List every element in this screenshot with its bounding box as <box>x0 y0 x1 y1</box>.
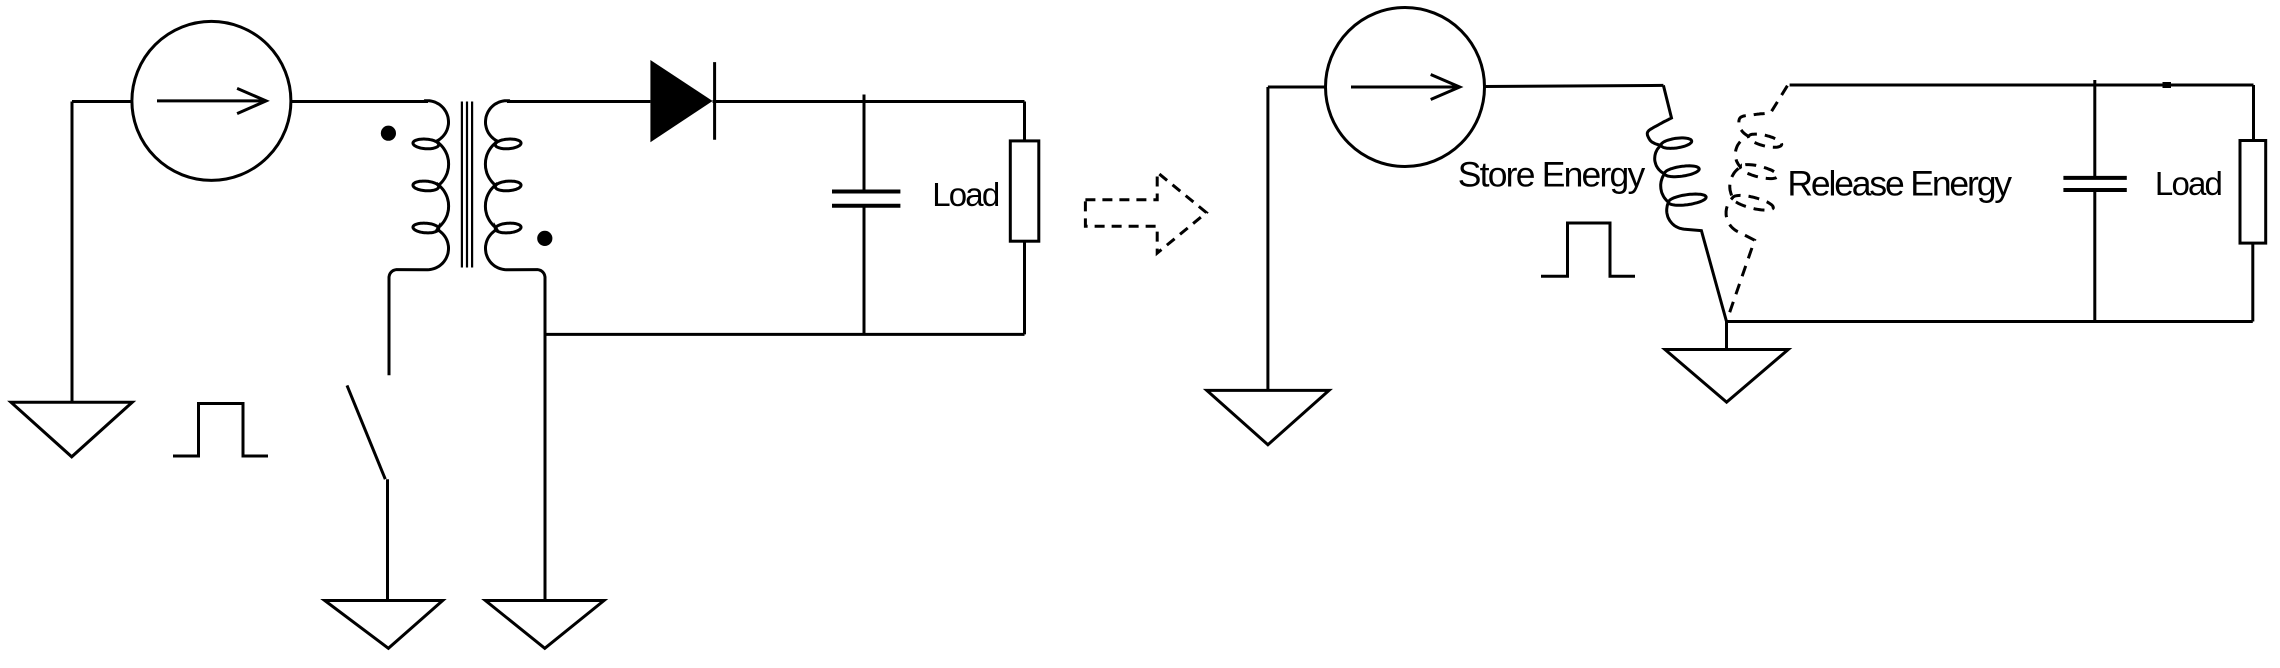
svg-text:Load: Load <box>932 176 999 213</box>
svg-text:Store Energy: Store Energy <box>1458 154 1646 194</box>
svg-text:Release Energy: Release Energy <box>1787 164 2012 204</box>
svg-text:Load: Load <box>2155 165 2222 202</box>
